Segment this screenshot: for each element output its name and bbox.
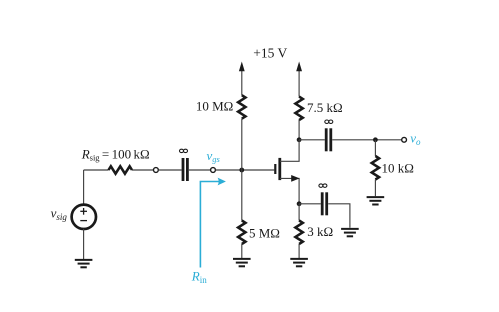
wire: 5 MOhm to ground	[241, 244, 243, 258]
label infinity CC1	[180, 149, 188, 152]
wire: load node to 10 kOhm	[374, 140, 376, 156]
svg-text:vo: vo	[410, 131, 421, 147]
svg-text:vgs: vgs	[207, 148, 221, 164]
junction: drain node	[297, 137, 302, 142]
wire: input horizontal from source branch to Rsig	[84, 169, 109, 171]
svg-text:10 MΩ: 10 MΩ	[196, 99, 233, 114]
svg-text:5 MΩ: 5 MΩ	[249, 225, 280, 240]
resistor 10 kOhm	[372, 156, 379, 180]
terminal: open circle vo	[402, 137, 407, 142]
junction: gate bias node	[239, 168, 244, 173]
channel bar	[278, 158, 281, 180]
svg-text:Rsig = 100 kΩ: Rsig = 100 kΩ	[81, 146, 150, 162]
power arrow (10 MOhm branch)	[239, 62, 245, 96]
terminal: open circle after Rsig	[154, 168, 159, 173]
svg-text:3 kΩ: 3 kΩ	[307, 224, 333, 239]
source arrow	[291, 175, 299, 182]
wire: source node to 3 kOhm	[298, 204, 300, 221]
ground (below 5 MOhm)	[233, 259, 251, 266]
label infinity CC2	[325, 120, 333, 123]
wire: gate node down to 5 MOhm	[241, 170, 243, 221]
wire: CC1 to vgs terminal	[189, 169, 211, 171]
power arrow (7.5 kOhm branch)	[296, 62, 302, 97]
wire: drain node to coupling capacitor CC2	[299, 139, 325, 141]
wire: voltage source to ground	[83, 229, 85, 259]
resistor Rsig (horizontal zigzag)	[109, 166, 133, 173]
terminal: open circle node vgs	[211, 168, 216, 173]
ground (below 3 kOhm)	[290, 259, 308, 266]
wire: 3 kOhm to ground	[298, 244, 300, 258]
wire: input branch down to voltage source	[83, 170, 85, 205]
resistor 10 MOhm	[238, 95, 245, 118]
junction: source node	[297, 201, 302, 206]
svg-text:vsig: vsig	[51, 206, 68, 222]
resistor 5 MOhm	[238, 221, 245, 245]
svg-text:+15 V: +15 V	[253, 46, 287, 61]
MOSFET Q1	[275, 140, 299, 204]
drain lead	[280, 140, 299, 162]
wire: terminal to coupling capacitor CC1	[158, 169, 181, 171]
resistor 3 kOhm	[295, 221, 302, 245]
svg-text:10 kΩ: 10 kΩ	[382, 161, 414, 176]
junction: output load node	[373, 137, 378, 142]
wire: bypass capacitor to its ground	[328, 204, 350, 228]
wire: CC2 to output terminal	[332, 139, 402, 141]
capacitor CC1 (input coupling, infinite)	[183, 158, 187, 181]
wire: 7.5 kOhm to drain node	[298, 120, 300, 140]
wire: vgs terminal to MOSFET gate	[215, 169, 274, 171]
ground (below vsig)	[75, 260, 93, 267]
source lead	[280, 178, 299, 203]
resistor 7.5 kOhm	[295, 97, 302, 120]
gate bar	[274, 164, 276, 174]
capacitor CS (bypass, infinite)	[322, 192, 327, 215]
wire: 10 kOhm to ground	[374, 180, 376, 197]
ground (below 10 kOhm)	[367, 197, 385, 204]
ground (bypass capacitor)	[341, 229, 359, 236]
voltage source vsig	[72, 205, 96, 229]
label infinity CS	[319, 184, 327, 187]
svg-text:7.5 kΩ: 7.5 kΩ	[307, 100, 343, 115]
wire: source node to bypass capacitor	[299, 203, 321, 205]
svg-text:Rin: Rin	[191, 269, 207, 285]
capacitor CC2 (output coupling, infinite)	[326, 128, 331, 151]
Rin arrow (cyan)	[200, 182, 220, 268]
wire: Rsig to input terminal	[132, 169, 154, 171]
wire: 10 MOhm to gate node	[241, 119, 243, 170]
